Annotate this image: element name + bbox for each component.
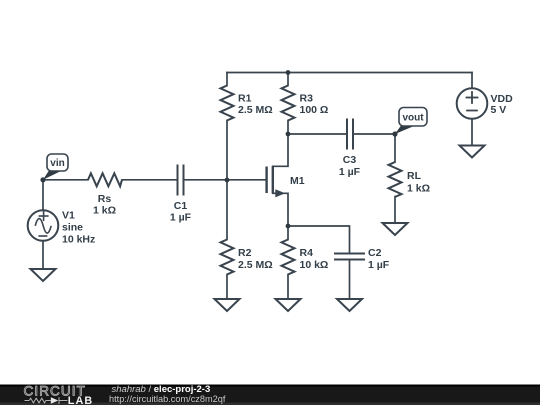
svg-text:RL: RL <box>407 170 422 182</box>
svg-text:1 kΩ: 1 kΩ <box>93 205 116 217</box>
svg-text:2.5 MΩ: 2.5 MΩ <box>238 104 273 116</box>
ground (RL) <box>383 223 408 235</box>
resistor RL <box>389 162 402 197</box>
wire gate lead <box>227 179 267 181</box>
source V1 <box>28 210 59 241</box>
ground (VDD) <box>460 146 485 158</box>
svg-text:R4: R4 <box>300 247 314 259</box>
wire M1 drain <box>273 134 288 166</box>
svg-text:10 kHz: 10 kHz <box>62 234 95 246</box>
svg-text:M1: M1 <box>290 175 305 187</box>
wire C2 bottom lead <box>349 260 351 299</box>
wire top rail <box>227 72 472 74</box>
svg-text:vout: vout <box>402 113 424 124</box>
wire R2 bottom lead <box>226 275 228 300</box>
ground (R2) <box>215 299 240 311</box>
wire vin node to Rs <box>43 179 88 181</box>
logo wire resistor diode <box>25 397 68 404</box>
wire M1 source to source node <box>273 193 288 226</box>
wire R1 top lead <box>226 73 228 86</box>
ground (C2) <box>337 299 362 311</box>
transistor M1 <box>267 166 286 197</box>
svg-text:2.5 MΩ: 2.5 MΩ <box>238 259 273 271</box>
wire V1 to ground <box>42 241 44 269</box>
node junction source <box>286 224 291 229</box>
node junction top rail <box>286 70 291 75</box>
node label vin <box>43 154 68 180</box>
wire R2 top lead <box>226 180 228 240</box>
svg-text:R3: R3 <box>300 93 314 105</box>
wire R1 bottom lead to gate node <box>226 121 228 181</box>
wire vout node down to RL <box>394 134 396 162</box>
svg-text:Rs: Rs <box>98 193 112 205</box>
svg-text:C1: C1 <box>174 200 188 212</box>
wire C1 to gate node <box>184 179 227 181</box>
svg-text:C2: C2 <box>368 247 382 259</box>
svg-text:10 kΩ: 10 kΩ <box>300 259 329 271</box>
resistor R1 <box>221 86 234 121</box>
svg-text:http://circuitlab.com/cz8m2qf: http://circuitlab.com/cz8m2qf <box>109 394 226 404</box>
svg-text:1 kΩ: 1 kΩ <box>407 183 430 195</box>
wire Rs to C1 <box>122 179 177 181</box>
svg-text:V1: V1 <box>62 210 75 222</box>
svg-text:1 µF: 1 µF <box>368 259 390 271</box>
node label vout <box>395 108 427 135</box>
wire VDD branch from rail <box>471 73 473 89</box>
capacitor C2 <box>334 253 365 255</box>
capacitor C1 <box>177 165 179 196</box>
svg-text:sine: sine <box>62 222 83 234</box>
wire VDD circle to ground <box>471 119 473 146</box>
svg-text:5 V: 5 V <box>491 104 507 116</box>
wire R3 bottom lead to drain node <box>287 121 289 135</box>
wire R3 top lead <box>287 73 289 86</box>
resistor Rs <box>88 173 122 186</box>
wire C3 to vout node <box>354 133 395 135</box>
capacitor C3 <box>346 119 348 150</box>
ground (R4) <box>276 299 301 311</box>
wire R4 top lead <box>287 226 289 240</box>
svg-text:C3: C3 <box>343 154 357 166</box>
node vin <box>40 177 45 182</box>
svg-text:1 µF: 1 µF <box>170 212 192 224</box>
svg-text:1 µF: 1 µF <box>339 166 361 178</box>
node junction drain <box>286 132 291 137</box>
resistor R3 <box>282 86 295 121</box>
wire source node to C2 <box>288 226 350 253</box>
svg-text:vin: vin <box>50 158 64 169</box>
footer bar <box>0 385 540 405</box>
node vout <box>392 131 397 136</box>
node junction gate <box>225 178 230 183</box>
svg-text:LAB: LAB <box>68 395 94 405</box>
ground (V1) <box>31 269 56 281</box>
resistor R4 <box>282 240 295 275</box>
source VDD <box>457 88 488 119</box>
wire vin node down to V1 <box>42 180 44 210</box>
wire drain node to C3 <box>288 133 346 135</box>
wire R4 bottom lead <box>287 275 289 300</box>
svg-text:100 Ω: 100 Ω <box>300 104 329 116</box>
svg-text:R1: R1 <box>238 93 252 105</box>
svg-text:R2: R2 <box>238 247 252 259</box>
wire RL bottom lead <box>394 197 396 224</box>
resistor R2 <box>221 240 234 275</box>
